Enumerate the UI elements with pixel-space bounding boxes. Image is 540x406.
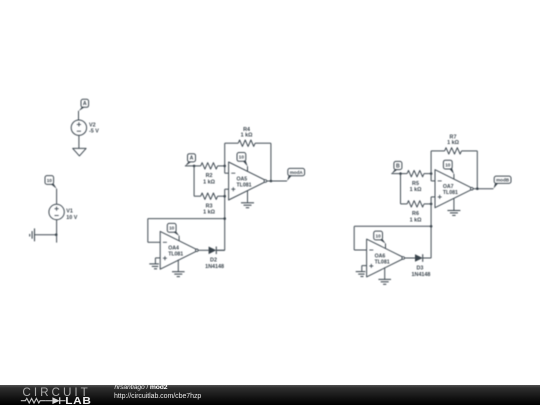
label R5 <box>410 181 422 193</box>
label R4 <box>241 127 253 138</box>
wire <box>405 257 415 259</box>
svg-text:R6: R6 <box>412 211 419 217</box>
label R6 <box>410 211 422 223</box>
resistor R3 1k <box>201 193 218 199</box>
wire <box>78 135 80 148</box>
logo resistor glyph <box>21 398 46 403</box>
svg-text:1N4148: 1N4148 <box>412 272 431 278</box>
wire <box>473 188 493 190</box>
svg-text:R5: R5 <box>412 181 419 187</box>
junction under V1 <box>55 233 58 236</box>
junction at A split <box>193 165 196 168</box>
wire <box>255 143 271 181</box>
resistor R5 1k <box>407 170 424 176</box>
wire <box>267 180 287 182</box>
node flag B <box>391 161 402 174</box>
resistor R6 1k <box>407 201 424 207</box>
wire <box>185 165 194 167</box>
footer bar <box>0 385 540 405</box>
op-amp OA6 TL081 <box>367 239 405 277</box>
resistor R7 1k feedback <box>445 148 462 154</box>
V- pin of OA4 <box>177 260 179 272</box>
wire <box>194 165 201 167</box>
op-amp OA7 TL081 <box>435 170 473 208</box>
ground at OA4 + input <box>149 258 160 269</box>
wire <box>78 111 80 120</box>
resistor R4 1k feedback <box>238 140 255 146</box>
ground at OA6 + input <box>356 266 367 277</box>
V- pin of OA7 <box>453 198 455 210</box>
svg-text:LAB: LAB <box>65 395 91 405</box>
wire <box>431 197 435 258</box>
label R7 <box>447 135 459 146</box>
junction R6 node <box>430 203 433 206</box>
footer credit text line 1 <box>114 385 167 392</box>
wire <box>401 173 408 175</box>
svg-text:1 kΩ: 1 kΩ <box>203 210 215 216</box>
ground below OA6 <box>378 279 391 284</box>
ground (triangle) below V2 <box>73 148 86 156</box>
label D2 <box>205 258 224 271</box>
svg-text:modA: modA <box>290 170 304 175</box>
svg-text:1N4148: 1N4148 <box>205 264 224 270</box>
node flag 10 on OA7 <box>443 160 454 174</box>
wire <box>401 203 408 205</box>
svg-text:1 kΩ: 1 kΩ <box>241 132 253 138</box>
wire <box>462 151 478 189</box>
svg-text:R3: R3 <box>206 204 213 210</box>
wire <box>216 249 224 251</box>
wire <box>198 249 208 251</box>
svg-text:1 kΩ: 1 kΩ <box>410 217 422 223</box>
wire <box>225 172 229 174</box>
V+ pin of OA5 <box>247 166 249 171</box>
V- pin of OA6 <box>384 267 386 279</box>
voltage source V2 <box>71 120 86 135</box>
logo diode glyph <box>52 397 59 404</box>
svg-text:1 kΩ: 1 kΩ <box>203 179 215 185</box>
label V1 value <box>66 209 77 221</box>
wire <box>218 195 225 197</box>
wire <box>216 249 224 251</box>
node flag A <box>185 154 196 167</box>
wire <box>225 189 229 250</box>
svg-text:10: 10 <box>445 162 451 167</box>
wire <box>194 195 201 197</box>
op-amp OA5 TL081 <box>229 162 267 200</box>
junction at output <box>476 187 479 190</box>
node flag modB <box>494 176 512 189</box>
resistor R2 1k <box>201 163 218 169</box>
svg-text:V2: V2 <box>89 123 96 129</box>
ground below OA5 <box>241 203 254 208</box>
svg-text:modB: modB <box>496 178 510 183</box>
svg-text:10: 10 <box>375 233 381 238</box>
wire <box>391 173 400 175</box>
wire <box>423 257 431 259</box>
wire <box>424 203 431 205</box>
wire <box>225 143 239 173</box>
wire <box>423 257 431 259</box>
wire <box>431 151 445 181</box>
svg-text:10: 10 <box>47 178 53 183</box>
svg-text:TL081: TL081 <box>168 252 183 258</box>
label D3 <box>412 265 431 278</box>
footer credit text line 2 <box>114 393 201 400</box>
svg-text:10: 10 <box>169 226 175 231</box>
ground below OA7 <box>447 211 460 216</box>
wire <box>56 220 58 235</box>
voltage source V1 <box>49 204 64 219</box>
svg-text:B: B <box>396 163 400 169</box>
node flag 10 on OA4 <box>167 223 179 236</box>
svg-text:V1: V1 <box>66 209 73 215</box>
ground below OA4 <box>172 272 185 277</box>
svg-text:-5 V: -5 V <box>89 129 99 135</box>
wire <box>218 165 225 167</box>
V- pin of OA5 <box>247 191 249 203</box>
svg-text:1 kΩ: 1 kΩ <box>410 187 422 193</box>
svg-text:D3: D3 <box>416 265 423 271</box>
CircuitLab logo wordmark <box>0 385 110 406</box>
junction R3 node <box>223 195 226 198</box>
V+ pin of OA4 <box>178 236 180 241</box>
wire <box>431 180 435 182</box>
svg-text:TL081: TL081 <box>237 182 252 188</box>
node flag A (net A) on V2 <box>79 99 89 111</box>
svg-text:TL081: TL081 <box>443 190 458 196</box>
junction at output <box>270 180 273 183</box>
node flag 10 on V1 <box>45 176 57 189</box>
label R2 <box>203 173 215 185</box>
V+ pin of OA6 <box>385 244 387 249</box>
svg-text:R2: R2 <box>206 173 213 179</box>
junction R2 / feedback <box>223 165 226 168</box>
svg-text:10: 10 <box>239 155 245 160</box>
svg-text:A: A <box>190 156 194 162</box>
ground (left-facing) at V1 return <box>30 228 35 241</box>
diode D3 1N4148 <box>415 254 423 262</box>
node flag 10 on OA6 <box>374 231 386 244</box>
wire <box>400 174 402 204</box>
junction to rectifier feedback <box>223 217 226 220</box>
svg-text:A: A <box>83 101 87 107</box>
wire <box>354 226 431 250</box>
node flag modA <box>287 168 304 181</box>
svg-text:TL081: TL081 <box>375 259 390 265</box>
label R3 <box>203 204 215 216</box>
wire <box>424 173 431 175</box>
svg-text:D2: D2 <box>210 258 217 264</box>
svg-text:1 kΩ: 1 kΩ <box>447 140 459 146</box>
V+ pin of OA7 <box>453 174 455 179</box>
junction at B split <box>399 172 402 175</box>
wire <box>56 189 58 205</box>
svg-text:10 V: 10 V <box>66 215 77 221</box>
node flag 10 on OA5 <box>237 153 248 167</box>
wire <box>148 219 225 243</box>
junction R5 / feedback <box>430 172 433 175</box>
wire <box>35 234 57 236</box>
junction to rectifier feedback <box>430 225 433 228</box>
wire <box>193 166 195 196</box>
op-amp OA4 TL081 <box>160 231 198 269</box>
diode D2 1N4148 <box>209 247 217 255</box>
label V2 value <box>89 123 99 135</box>
wire <box>56 235 58 243</box>
